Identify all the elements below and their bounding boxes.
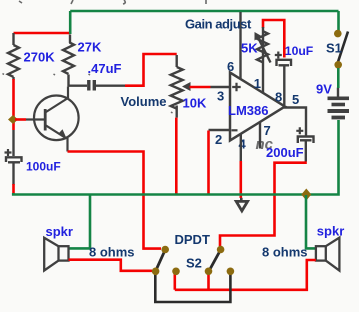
wire green drop to left speaker [69, 195, 91, 248]
svg-text:6: 6 [227, 59, 234, 74]
resistor 270K [8, 33, 19, 80]
capacitor 100uF [6, 130, 22, 185]
switch S2 contact B top [217, 246, 225, 254]
svg-text:Gain adjust: Gain adjust [185, 17, 252, 32]
svg-text:S2: S2 [186, 256, 202, 271]
svg-text:spkr: spkr [46, 224, 73, 239]
battery 9V [328, 88, 350, 118]
wire red S2 throw drops [175, 272, 209, 290]
wire pin 7 nc [259, 122, 261, 149]
svg-text:27K: 27K [78, 40, 102, 55]
wire red 100uF to rail [12, 184, 15, 194]
wire red right speaker to S2 [175, 260, 316, 290]
capacitor 10uF [277, 60, 292, 66]
svg-text:LM386: LM386 [228, 103, 268, 118]
capacitor C2 .47uF [89, 80, 95, 91]
resistor 27K [63, 35, 74, 87]
wire pin 5 output [284, 108, 306, 137]
switch S2 pole 1 [152, 268, 160, 276]
wire red wiper [190, 86, 211, 89]
wire red emitter to S2 left contact [68, 152, 162, 249]
wire red 270K to junction [12, 79, 15, 130]
svg-text:.47uF: .47uF [88, 61, 122, 76]
svg-text:270K: 270K [24, 50, 56, 65]
wire green V+ riser left [69, 11, 72, 34]
wire green ground rail [13, 193, 306, 195]
wire pin 2 dark [209, 129, 230, 131]
wire dark wiper to pin3 [211, 86, 230, 88]
svg-text:3: 3 [217, 89, 224, 104]
switch S2 DPDT dark link [155, 273, 230, 303]
svg-text:S1: S1 [326, 40, 342, 55]
svg-text:10K: 10K [183, 96, 207, 111]
svg-text:DPDT: DPDT [175, 232, 210, 247]
wire pin 8 [283, 66, 285, 105]
ground symbol [236, 198, 247, 211]
speaker left [44, 238, 68, 271]
wire red base stub [15, 118, 26, 121]
switch S2 contact A top [161, 246, 169, 254]
potentiometer Volume 10K [171, 55, 183, 118]
transistor Q1 [26, 87, 79, 152]
svg-text:8 ohms: 8 ohms [262, 245, 308, 260]
wire V+ top left red [14, 32, 71, 35]
wire green V+ top rail [70, 10, 338, 13]
svg-text:5K: 5K [241, 41, 258, 56]
switch S2 pole 3 [205, 268, 213, 276]
wire green S1 to battery [337, 68, 340, 88]
wire collector to cap [68, 84, 88, 86]
node junction dot base [8, 115, 18, 124]
wire pin 6 to V+ rail [239, 12, 241, 79]
switch S2 lever B [209, 250, 221, 271]
wire red volume bottom to rail [175, 118, 178, 194]
switch S1 [338, 32, 348, 63]
op-amp U1 LM386 [230, 73, 285, 141]
switch S2 pole 4 [227, 268, 235, 276]
wire cap out dark [96, 84, 125, 86]
wire pin 4 dark [240, 134, 242, 161]
wire green drop to right speaker [306, 195, 316, 248]
potentiometer 5K [257, 27, 271, 63]
svg-text:10uF: 10uF [285, 44, 313, 58]
svg-text:5: 5 [292, 92, 299, 107]
svg-text:1: 1 [254, 76, 261, 91]
switch S2 lever A [156, 250, 166, 271]
wire pin 1 [262, 62, 264, 94]
node junction green rail [301, 189, 311, 201]
switch S2 pole 2 [172, 268, 180, 276]
wire red 5K top loop [263, 20, 284, 58]
wire cap out red to volume top [125, 54, 177, 86]
wire green battery to rail corner [307, 120, 339, 195]
speaker right [316, 238, 340, 271]
svg-text:9V: 9V [316, 82, 332, 97]
wire red pin 2 to ground rail [207, 131, 210, 194]
wire red left speaker to S2 pivot [69, 260, 153, 271]
svg-text:100uF: 100uF [26, 160, 61, 174]
svg-text:Volume: Volume [121, 94, 167, 109]
svg-text:8: 8 [275, 89, 282, 104]
svg-text:200uF: 200uF [266, 145, 304, 160]
wire red 200uF to S2 right contact [220, 163, 307, 246]
svg-text:8 ohms: 8 ohms [89, 245, 135, 260]
wire green V+ drop to S1 [337, 11, 340, 31]
svg-text:2: 2 [215, 132, 222, 147]
svg-text:spkr: spkr [317, 224, 344, 239]
capacitor 200uF [298, 137, 314, 162]
wire red pin 4 to rail [240, 161, 243, 198]
